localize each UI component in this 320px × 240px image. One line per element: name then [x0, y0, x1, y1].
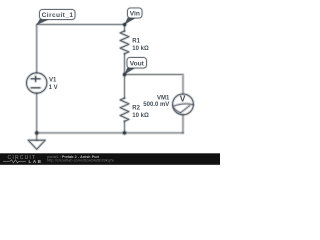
- svg-text:Circuit_1: Circuit_1: [42, 12, 74, 19]
- svg-text:1 V: 1 V: [49, 85, 58, 91]
- svg-text:10 kΩ: 10 kΩ: [132, 46, 149, 52]
- svg-text:Vin: Vin: [130, 11, 140, 18]
- svg-text:R1: R1: [132, 39, 140, 45]
- svg-text:500.0 mV: 500.0 mV: [143, 102, 169, 108]
- svg-text:R2: R2: [132, 106, 140, 112]
- svg-text:LAB: LAB: [29, 159, 42, 164]
- svg-text:10 kΩ: 10 kΩ: [132, 113, 149, 119]
- svg-text:V1: V1: [49, 78, 57, 84]
- svg-text:VM1: VM1: [157, 96, 170, 102]
- svg-text:V: V: [180, 94, 186, 104]
- svg-text:http://circuitlab.com/c6zw24u5: http://circuitlab.com/c6zw24u5b39kq7e: [47, 159, 114, 163]
- svg-text:Vout: Vout: [130, 60, 145, 67]
